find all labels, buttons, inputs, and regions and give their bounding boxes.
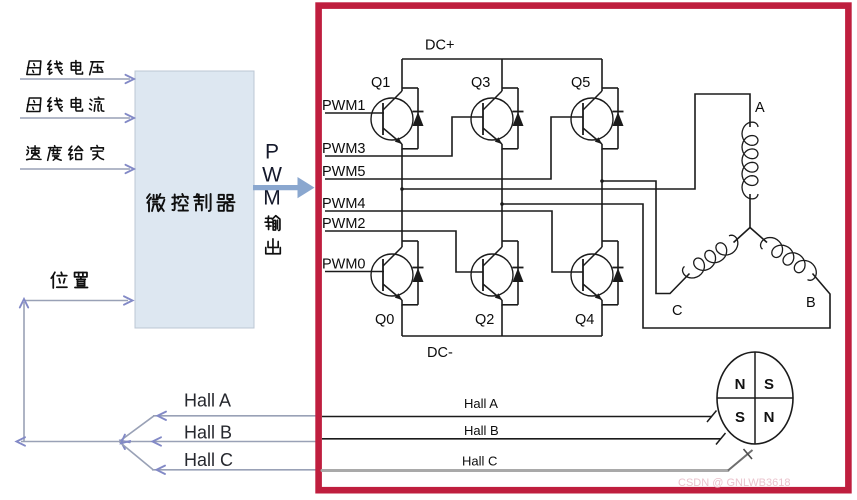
svg-text:PWM5: PWM5 <box>322 164 366 180</box>
label 位置 (position) <box>51 272 67 288</box>
wire hall C left segment <box>152 469 319 471</box>
svg-text:S: S <box>735 409 745 426</box>
wire feedback bottom horizontal with left arrow <box>21 441 119 443</box>
svg-text:DC-: DC- <box>427 345 453 361</box>
svg-text:Hall B: Hall B <box>184 423 232 443</box>
wire collector lead <box>401 59 403 91</box>
wire collector top connect <box>402 240 418 242</box>
svg-text:Q1: Q1 <box>371 75 390 91</box>
input label 速度给定 (speed reference) <box>27 146 41 160</box>
svg-text:Hall C: Hall C <box>184 450 233 470</box>
wire phase B from leg2 <box>502 204 830 328</box>
diode D-Q2 <box>517 241 519 305</box>
svg-text:Hall C: Hall C <box>462 454 497 469</box>
wire emitter lead <box>601 305 603 336</box>
transistor Q2 <box>471 254 513 296</box>
wire coil C to star <box>734 228 751 243</box>
wire PWM2 row with jog down to Q2 base <box>325 231 483 272</box>
svg-text:S: S <box>764 376 774 393</box>
svg-text:N: N <box>764 409 775 426</box>
red frame of driver stage <box>319 6 849 491</box>
wire collector top connect <box>602 87 618 89</box>
wire PWM4 row with jog down to Q4 base <box>325 211 583 272</box>
wire collector lead <box>601 241 603 247</box>
node leg1/phaseA <box>400 187 404 191</box>
input label 母线电压 (bus voltage) <box>27 61 41 75</box>
svg-text:DC+: DC+ <box>425 38 454 54</box>
wire hall C diagonal <box>120 442 154 470</box>
svg-text:Hall A: Hall A <box>464 396 498 411</box>
wire PWM3 row with jog up to Q3 base <box>325 117 483 156</box>
wire emitter lead <box>501 305 503 336</box>
wire hall A sensor line <box>322 416 712 418</box>
wire PWM0 row <box>325 271 383 273</box>
svg-text:PWM4: PWM4 <box>322 196 366 212</box>
wire speed-ref arrow <box>20 168 130 170</box>
svg-text:W: W <box>262 164 282 187</box>
wire hall C sensor line (gray) <box>322 469 728 472</box>
rotor magnet circle <box>717 352 793 444</box>
hall A tick <box>707 411 717 423</box>
transistor Q4 <box>571 254 613 296</box>
svg-text:C: C <box>672 303 682 319</box>
wire phase A from leg1 <box>402 94 750 189</box>
svg-text:Q0: Q0 <box>375 312 394 328</box>
svg-text:P: P <box>265 141 279 164</box>
wire bus-current arrow <box>20 117 130 119</box>
wire emitter lead <box>501 149 503 241</box>
winding A coil <box>742 122 758 199</box>
wire hall B left segment <box>157 441 319 443</box>
wire hall A left segment <box>153 415 319 417</box>
diode D-Q0 <box>417 241 419 305</box>
wire collector lead <box>501 241 503 247</box>
wire DC- rail <box>402 335 602 337</box>
diode D-Q5 <box>617 88 619 149</box>
winding B coil <box>761 238 817 281</box>
input label 母线电流 (bus current) <box>27 98 41 112</box>
svg-text:Q3: Q3 <box>471 75 490 91</box>
svg-text:PWM3: PWM3 <box>322 141 366 157</box>
wire PWM5 row with jog up to Q5 base <box>325 117 583 179</box>
winding C coil <box>683 235 738 278</box>
block 微控制器 microcontroller <box>135 71 254 328</box>
wire collector lead <box>601 59 603 91</box>
wire hall B sensor line <box>322 438 721 440</box>
wire collector top connect <box>502 240 518 242</box>
svg-text:N: N <box>735 376 746 393</box>
wire hall A diagonal <box>120 416 155 442</box>
wire collector top connect <box>502 87 518 89</box>
svg-text:Q2: Q2 <box>475 312 494 328</box>
wire emitter lead <box>401 305 403 336</box>
svg-text:PWM1: PWM1 <box>322 98 366 114</box>
hall B tick <box>716 433 726 445</box>
svg-text:Q5: Q5 <box>571 75 590 91</box>
wire Q1 base lead <box>383 112 384 114</box>
hall C tick <box>744 449 753 459</box>
svg-text:Hall A: Hall A <box>184 391 231 411</box>
wire collector top connect <box>402 87 418 89</box>
wire Q0 base lead <box>383 271 384 273</box>
wire bus-voltage arrow <box>20 78 130 80</box>
svg-text:A: A <box>755 100 765 116</box>
diode D-Q4 <box>617 241 619 305</box>
wire phase C from leg3 <box>602 181 690 294</box>
wire collector lead <box>501 59 503 91</box>
wire emitter lead <box>601 149 603 241</box>
svg-text:PWM0: PWM0 <box>322 257 366 273</box>
svg-text:Q4: Q4 <box>575 312 594 328</box>
transistor Q0 <box>371 254 413 296</box>
wire collector lead <box>401 241 403 247</box>
wire emitter bottom connect <box>502 148 518 150</box>
wire emitter lead <box>401 149 403 241</box>
wire emitter bottom connect <box>602 304 618 306</box>
transistor Q3 <box>471 98 513 140</box>
wire collector top connect <box>602 240 618 242</box>
wire PWM1 row <box>325 112 383 114</box>
diode D-Q1 <box>417 88 419 149</box>
wire emitter bottom connect <box>402 304 418 306</box>
wire position arrow into block <box>24 300 128 302</box>
svg-text:B: B <box>806 295 816 311</box>
wire coil B to star <box>750 228 767 243</box>
wire coil A to star <box>749 194 751 228</box>
wire hall C diagonal <box>728 450 753 471</box>
diode D-Q3 <box>517 88 519 149</box>
svg-text:Hall B: Hall B <box>464 423 499 438</box>
wire DC+ rail <box>402 58 602 60</box>
node leg3/phaseC <box>600 179 604 183</box>
thick PWM block arrow <box>253 177 315 198</box>
svg-text:CSDN @ GNLWB3618: CSDN @ GNLWB3618 <box>678 477 790 489</box>
wire emitter bottom connect <box>602 148 618 150</box>
wire emitter bottom connect <box>502 304 518 306</box>
transistor Q5 <box>571 98 613 140</box>
wire hall B horizontal into junction <box>119 441 157 443</box>
wire feedback vertical with up arrow <box>23 302 25 442</box>
wire emitter bottom connect <box>402 148 418 150</box>
transistor Q1 <box>371 98 413 140</box>
svg-text:PWM2: PWM2 <box>322 216 366 232</box>
node leg2/phaseB <box>500 202 504 206</box>
